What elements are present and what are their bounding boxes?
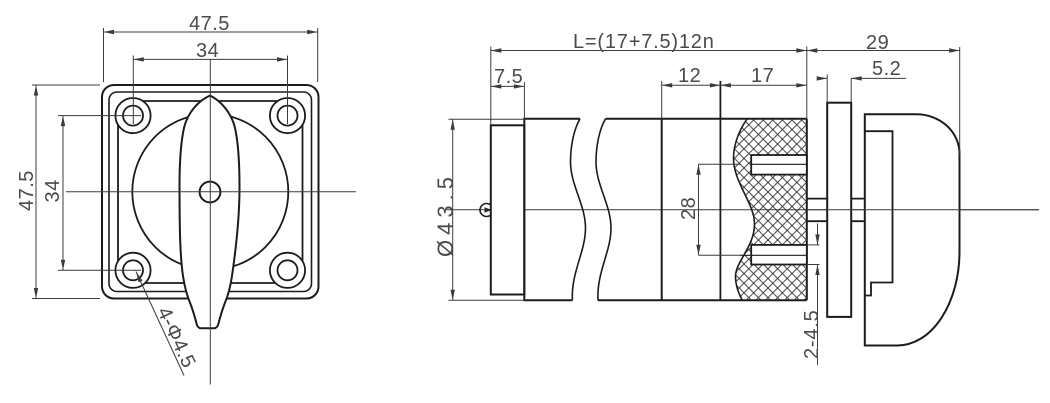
svg-text:2-4.5: 2-4.5 [801, 309, 823, 359]
svg-text:34: 34 [196, 40, 219, 62]
svg-text:5.2: 5.2 [872, 58, 901, 80]
svg-text:28: 28 [678, 197, 700, 220]
svg-text:12: 12 [678, 65, 701, 87]
svg-text:34: 34 [42, 179, 64, 202]
svg-text:29: 29 [866, 32, 889, 54]
svg-text:L=(17+7.5)12n: L=(17+7.5)12n [573, 31, 715, 53]
svg-text:Ø43.5: Ø43.5 [433, 172, 458, 257]
svg-text:4-Φ4.5: 4-Φ4.5 [152, 304, 199, 372]
svg-text:47.5: 47.5 [189, 13, 230, 35]
svg-text:47.5: 47.5 [16, 170, 38, 211]
svg-text:7.5: 7.5 [494, 66, 523, 88]
svg-text:17: 17 [751, 65, 774, 87]
